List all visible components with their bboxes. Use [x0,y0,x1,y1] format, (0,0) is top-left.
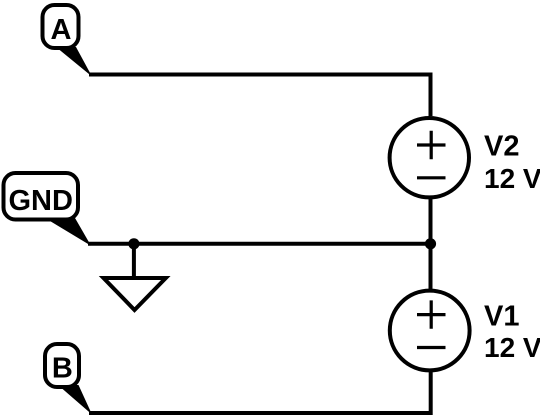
net label A [43,5,79,48]
net label B [45,344,79,387]
junction dot left (ground tap) [128,238,139,249]
net label GND pointer [45,218,91,246]
net label B pointer [58,385,92,415]
svg-text:12 V: 12 V [484,163,540,194]
voltage source V1 [390,291,470,371]
net label A pointer [56,47,92,77]
V2 minus sign [417,176,446,179]
wire V2 bottom to junction [429,197,433,246]
wire junction to V1 top [429,244,433,290]
V2 plus sign [417,131,446,159]
V1 value labels [484,301,540,364]
wire net GND: horizontal from label GND to right junction [88,242,431,246]
voltage source V2 [390,118,469,197]
svg-text:GND: GND [8,185,72,217]
wire net A: horizontal from label A to top of V2, then down [89,75,431,117]
V2 value labels [484,131,540,195]
junction dot right [425,238,436,249]
svg-text:A: A [51,14,72,46]
ground symbol [104,278,166,310]
V1 plus sign [417,300,446,328]
wire ground stub [132,244,136,278]
wire net B: from label B along bottom, up to V1 bottom [89,372,431,413]
svg-text:V2: V2 [484,131,519,163]
net label GND [4,173,79,220]
svg-text:12 V: 12 V [484,332,540,363]
svg-text:B: B [52,352,73,384]
svg-text:V1: V1 [484,301,519,333]
V1 minus sign [417,346,446,349]
